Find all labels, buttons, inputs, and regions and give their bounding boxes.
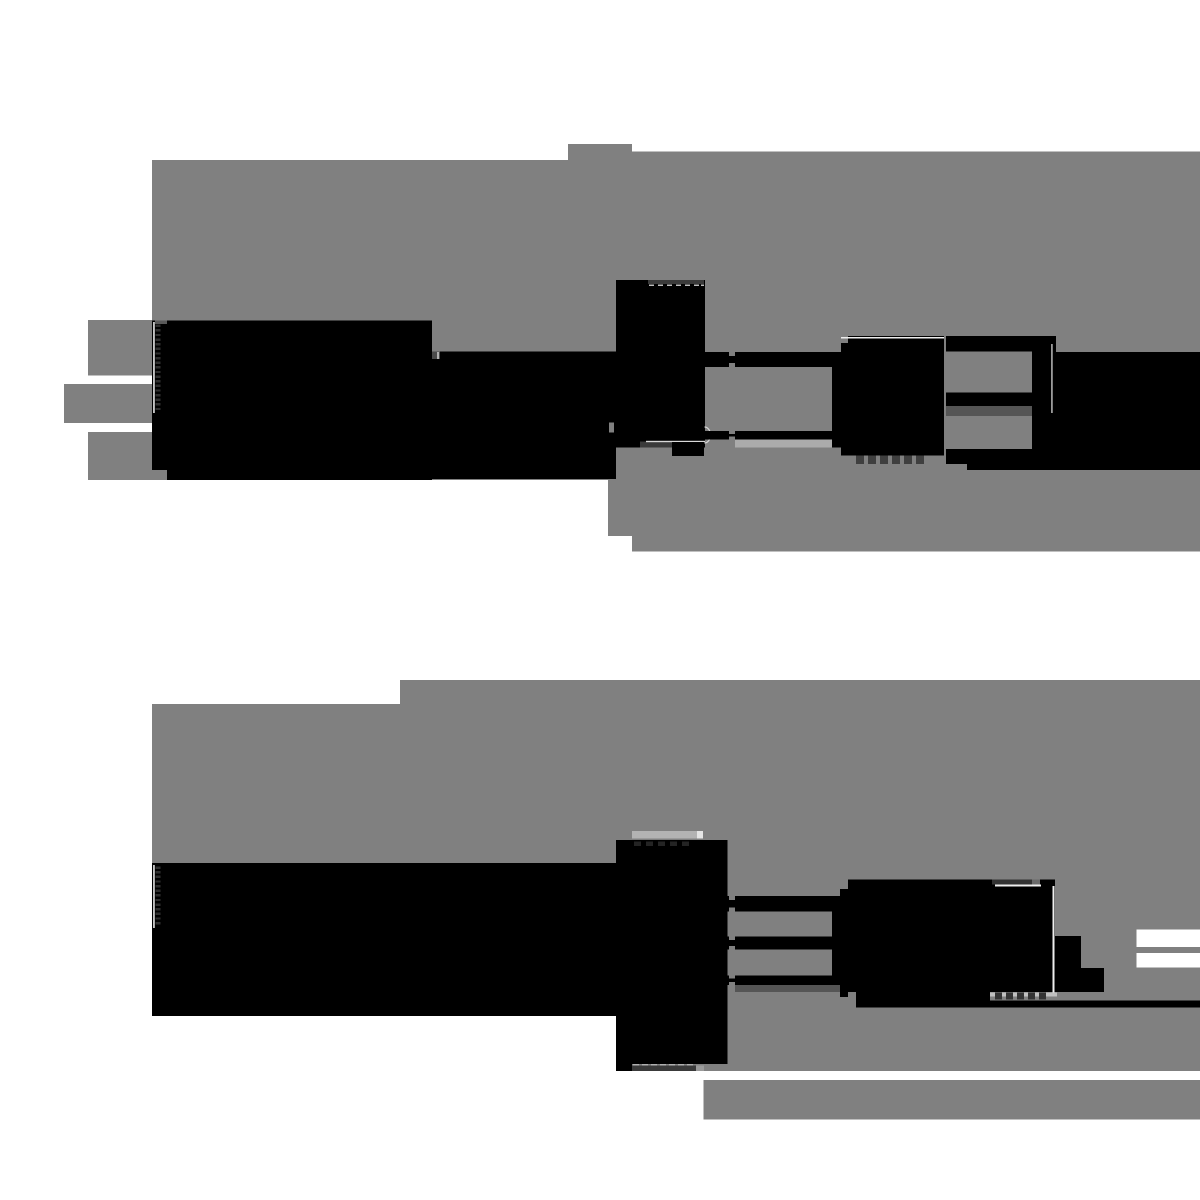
wire net C bottom: [728, 976, 841, 985]
node background right top: [632, 152, 1200, 161]
node background right: [632, 160, 1200, 551]
U5 bottom-left leg: [616, 1064, 632, 1071]
U5 light bar white tip: [697, 831, 703, 839]
white equals bar 1: [1137, 930, 1200, 948]
U1 left edge white line: [153, 322, 155, 413]
U2 bottom white line: [646, 441, 705, 442]
U6 top notch light end: [1032, 880, 1040, 885]
pin gap marks wire A: [729, 896, 735, 900]
U6 bottom band: [856, 992, 990, 1001]
IC U6 driver module body: [848, 880, 1055, 993]
wire net SDA top: [705, 352, 841, 367]
U2 corner white arc: [705, 427, 711, 443]
IC U2 sensor module body: [616, 280, 705, 448]
U5 pin dash row top: [634, 841, 689, 846]
U3 pin dash row below: [856, 455, 924, 464]
U4 left edge white line: [153, 865, 155, 928]
IC U4 microcontroller module body: [152, 863, 616, 1016]
IC U3 driver module body: [841, 336, 944, 455]
U2 top dark strip: [648, 280, 704, 284]
U2 bottom stub: [672, 448, 704, 457]
IC U3 driver module left layer: [832, 352, 841, 448]
dark strip under wire C: [735, 985, 840, 992]
pin gap marks wire1: [729, 352, 735, 356]
wire net SCL top: [705, 431, 841, 440]
U1 notch right: [609, 423, 614, 433]
wire net B bottom: [728, 937, 841, 950]
wire net OUT bottom thin bar: [856, 1001, 1200, 1008]
wire net OUT top: [946, 336, 1032, 352]
IC U5 sensor module body: [616, 840, 728, 1064]
IC U1 body extension: [432, 352, 616, 480]
label box IN1: [88, 320, 152, 376]
U5 light bar above: [632, 831, 703, 839]
U1 junction notch: [432, 352, 440, 360]
J1 light line: [1051, 344, 1053, 413]
U1 top-left mark: [155, 321, 167, 325]
U6 bottom pin dashes: [995, 993, 1046, 1000]
U3 top white line: [841, 337, 944, 339]
U6 top notch: [992, 880, 1032, 885]
node background bottom step: [400, 680, 616, 1016]
U1 junction highlight: [437, 352, 439, 359]
U6 inner white hline: [995, 885, 1041, 887]
load block right slab: [1056, 352, 1200, 470]
label box IN3: [88, 432, 152, 480]
pin gap marks wire C: [729, 976, 735, 979]
U5 bottom dark strip: [632, 1066, 696, 1071]
node background main left: [152, 160, 608, 480]
node background bottom right: [616, 680, 1200, 1071]
U1 pin numbers column: [156, 325, 161, 411]
wire net OUT mid: [946, 393, 1032, 407]
U6 step 1: [1055, 936, 1081, 992]
wire net OUT bottom: [946, 449, 1032, 464]
U4 pin numbers column: [156, 867, 161, 925]
label box IN2: [64, 384, 152, 423]
pin gap marks wire2: [729, 431, 735, 434]
U2 bottom arc: [672, 442, 704, 449]
IC U1 microcontroller module body: [152, 321, 432, 480]
U2 top white dashed line: [649, 284, 704, 286]
light bar under wire2: [735, 440, 840, 448]
U6 inner white vline: [1053, 886, 1055, 994]
U3 top-left notch: [841, 336, 848, 343]
caption bar: [704, 1080, 1200, 1119]
U1 corner notch: [152, 470, 167, 480]
white equals bar 2: [1137, 953, 1200, 968]
IC U6 driver module column: [832, 896, 840, 985]
IC U6 left layer: [840, 889, 848, 997]
wire net A bottom: [728, 896, 841, 911]
pin gap marks wire B: [729, 937, 735, 941]
connector J1 column: [1032, 336, 1056, 470]
U5 bottom light block: [696, 1066, 704, 1071]
node background mid column: [608, 160, 632, 536]
U6 bottom light strip: [990, 993, 1057, 997]
node VCC bump: [568, 144, 632, 160]
node background bottom-left: [152, 704, 616, 1016]
U6 step 2: [1081, 968, 1104, 992]
U2 bottom dark strip: [640, 442, 672, 448]
node highlight background top-left step: [152, 144, 1200, 551]
U5 bottom white dash line: [633, 1064, 693, 1066]
slab bottom strip: [967, 464, 1056, 470]
dark strip under mid wire: [946, 406, 1032, 416]
